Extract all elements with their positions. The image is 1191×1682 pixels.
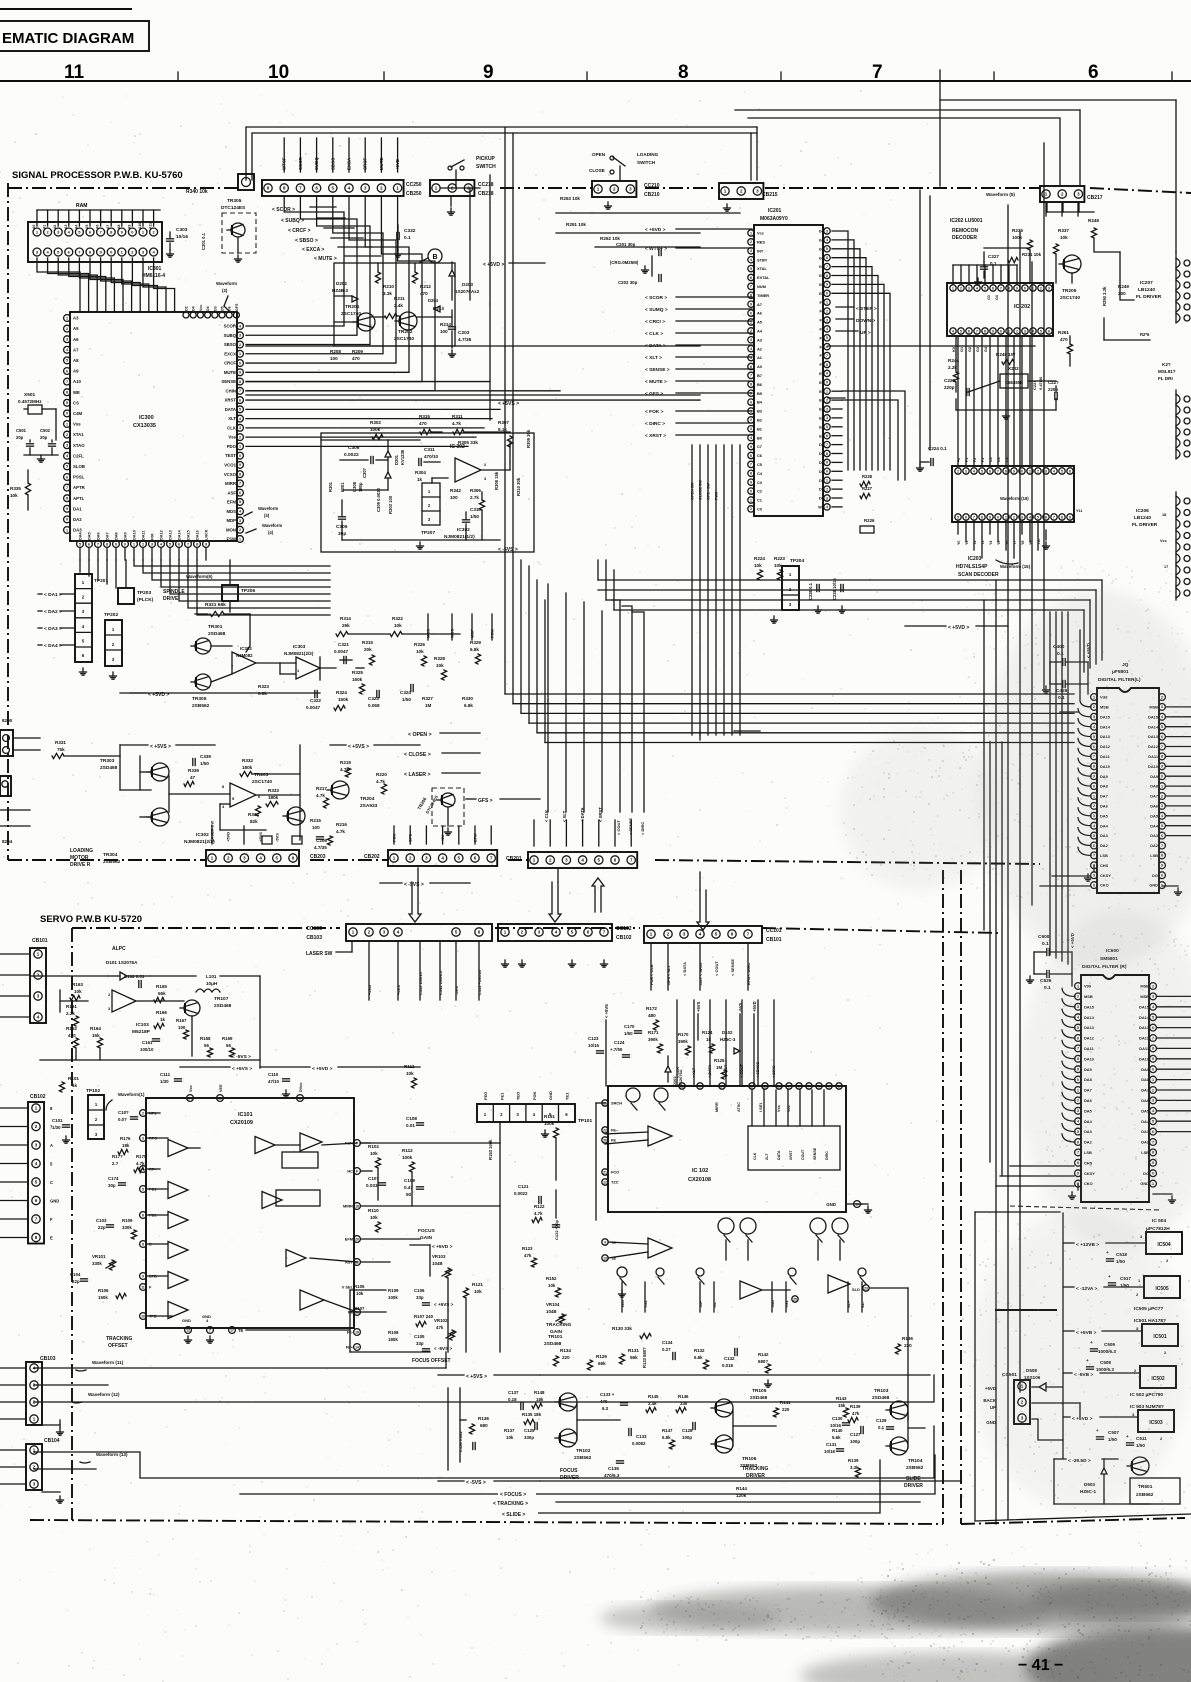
svg-text:R2*6: R2*6 — [1140, 332, 1150, 337]
wire scan decoder stubs — [958, 521, 1050, 558]
svg-text:DA10: DA10 — [133, 530, 137, 540]
svg-text:< +5VD >: < +5VD > — [948, 625, 969, 631]
svg-text:10k: 10k — [474, 1289, 482, 1294]
svg-text:Waveform: Waveform — [216, 281, 237, 286]
svg-text:< +5VS >: < +5VS > — [498, 401, 519, 407]
resistor R171 — [648, 1030, 663, 1053]
resistor R106 — [98, 1288, 126, 1300]
svg-text:1: 1 — [750, 409, 752, 413]
resistor R248 — [1088, 218, 1099, 238]
svg-text:< +5VS >: < +5VS > — [150, 744, 171, 750]
net +12VB arrow — [1063, 1242, 1146, 1248]
svg-text:R337: R337 — [1058, 228, 1069, 233]
svg-text:FL DRIVER: FL DRIVER — [1136, 294, 1162, 300]
IC102 inner labels — [753, 1147, 829, 1160]
op-amp drive A — [740, 1281, 762, 1299]
svg-text:Y0: Y0 — [957, 541, 961, 545]
net TG labels — [620, 1282, 865, 1312]
svg-text:100p: 100p — [682, 1435, 692, 1440]
svg-text:OPEN 5W: OPEN 5W — [691, 482, 695, 500]
test point TP207 — [421, 483, 440, 536]
svg-text:SBSO: SBSO — [330, 157, 335, 170]
svg-text:A10: A10 — [73, 379, 81, 384]
svg-text:ATSC: ATSC — [737, 1102, 741, 1112]
svg-text:TE: TE — [238, 1328, 244, 1333]
svg-text:DA1: DA1 — [73, 506, 82, 511]
svg-text:DA11: DA11 — [142, 531, 146, 541]
svg-text:18k: 18k — [122, 1143, 130, 1148]
svg-text:< COUT: < COUT — [740, 1063, 744, 1078]
svg-text:6: 6 — [1069, 469, 1071, 473]
IC203 scan decoder — [952, 457, 1083, 545]
svg-text:7: 7 — [976, 329, 978, 333]
svg-text:R308 15k: R308 15k — [494, 471, 499, 490]
svg-text:7: 7 — [187, 542, 189, 546]
svg-text:GND: GND — [826, 1202, 836, 1207]
test point TP102 — [86, 1088, 104, 1139]
svg-text:LOADING: LOADING — [637, 152, 659, 157]
laser sw label — [306, 941, 352, 957]
svg-text:C6: C6 — [757, 453, 763, 458]
wire cb103 nets — [34, 1352, 934, 1478]
net +5VD arrow right mid — [905, 625, 1008, 631]
svg-text:TEST: TEST — [225, 453, 236, 458]
svg-text:3: 3 — [151, 542, 153, 546]
wire remocon — [956, 248, 1072, 419]
resistor R228 — [860, 474, 873, 487]
svg-text:TR301: TR301 — [208, 624, 223, 630]
svg-text:C332: C332 — [404, 228, 416, 234]
svg-text:TR305: TR305 — [192, 696, 207, 702]
svg-text:50: 50 — [406, 1192, 412, 1197]
IC300 left pins — [64, 315, 86, 534]
svg-text:2SB562: 2SB562 — [192, 703, 210, 709]
svg-text:4: 4 — [142, 1167, 144, 1171]
focus driver label — [560, 1468, 579, 1481]
svg-text:3: 3 — [965, 469, 967, 473]
svg-text:< CLOSE >: < CLOSE > — [404, 752, 431, 758]
svg-text:C1: C1 — [757, 498, 763, 503]
svg-text:9: 9 — [826, 461, 828, 465]
svg-text:CB203: CB203 — [310, 854, 326, 860]
net +5VS -5VS small arrows — [434, 1302, 454, 1351]
svg-text:2: 2 — [750, 329, 752, 333]
svg-text:100k: 100k — [544, 1121, 555, 1126]
net -5VB arrow — [1063, 1372, 1140, 1378]
waveform 3 4 labels — [244, 506, 282, 535]
op-amp IC101 CX20109 servo amp — [146, 1098, 354, 1328]
resistor R102 — [368, 1144, 381, 1168]
resistor R308 — [494, 471, 499, 490]
svg-text:2: 2 — [960, 286, 962, 290]
svg-text:1k: 1k — [72, 1083, 78, 1088]
svg-text:3: 3 — [239, 426, 241, 430]
capacitor C309 — [376, 487, 381, 512]
svg-text:470/10: 470/10 — [424, 454, 438, 459]
svg-text:2: 2 — [750, 507, 752, 511]
svg-text:< DA1 >: < DA1 > — [44, 592, 62, 598]
transistor TR501 — [1127, 1457, 1180, 1504]
svg-text:TP102: TP102 — [86, 1088, 100, 1094]
test point TP101 — [477, 1091, 592, 1137]
wire filter L pin stubs — [1040, 630, 1191, 895]
svg-text:DRIVE R: DRIVE R — [70, 862, 91, 868]
svg-text:R331: R331 — [55, 740, 66, 745]
diode D101 — [106, 960, 150, 980]
svg-text:R135 18k: R135 18k — [522, 1412, 542, 1417]
svg-text:0: 0 — [826, 292, 828, 296]
svg-text:R137: R137 — [504, 1428, 515, 1433]
svg-text:OPE+ 5W: OPE+ 5W — [707, 483, 711, 500]
svg-text:3: 3 — [239, 334, 241, 338]
svg-text:A3: A3 — [64, 225, 68, 229]
svg-text:B4: B4 — [757, 400, 763, 405]
svg-text:C7: C7 — [757, 444, 762, 449]
svg-text:9: 9 — [483, 62, 494, 83]
svg-text:C323: C323 — [368, 696, 379, 701]
svg-text:TP201: TP201 — [94, 578, 108, 584]
svg-text:C125: C125 — [524, 1428, 535, 1433]
svg-text:1/30: 1/30 — [160, 1079, 169, 1084]
svg-text:R211: R211 — [394, 296, 405, 301]
svg-text:6: 6 — [992, 286, 994, 290]
svg-text:9: 9 — [115, 542, 117, 546]
transistor TR103 — [872, 1388, 908, 1419]
svg-text:R330: R330 — [462, 696, 473, 701]
resistor R339 — [184, 768, 199, 787]
svg-text:LASER SW: LASER SW — [306, 951, 333, 957]
svg-text:47k: 47k — [436, 1325, 444, 1330]
svg-text:0.27: 0.27 — [662, 1347, 671, 1352]
capacitor C311 — [419, 447, 439, 466]
filter L right pins — [1148, 694, 1165, 889]
svg-text:10k: 10k — [548, 1283, 556, 1288]
svg-text:R333: R333 — [268, 788, 279, 793]
svg-text:C5: C5 — [757, 462, 763, 467]
transistor TR104 — [886, 1437, 924, 1471]
svg-text:17: 17 — [230, 1328, 234, 1332]
svg-text:5: 5 — [169, 542, 171, 546]
svg-text:470: 470 — [419, 421, 427, 426]
svg-text:1/30: 1/30 — [52, 1125, 61, 1130]
svg-text:CX13035: CX13035 — [133, 423, 156, 429]
svg-text:1: 1 — [750, 320, 752, 324]
svg-text:R311: R311 — [452, 414, 463, 419]
RAM IC301 — [28, 203, 165, 279]
svg-text:R223: R223 — [774, 556, 785, 561]
capacitor C322 — [306, 691, 321, 711]
svg-text:F: F — [356, 1169, 358, 1173]
svg-text:< MUTE >: < MUTE > — [645, 379, 667, 385]
svg-text:14: 14 — [355, 1345, 359, 1349]
connector CB215 — [719, 183, 778, 211]
svg-text:< CLK: < CLK — [676, 1067, 680, 1078]
resistor R101 — [59, 1076, 79, 1092]
svg-text:9: 9 — [826, 283, 828, 287]
resistor R165 — [154, 984, 167, 1003]
svg-text:FOCUS: FOCUS — [418, 1228, 436, 1234]
wire ic102 bus up — [752, 1090, 862, 1204]
svg-text:8: 8 — [750, 383, 752, 387]
diode D202 — [332, 281, 358, 302]
svg-text:Waveform (11): Waveform (11) — [92, 1360, 124, 1365]
resistor R123 — [522, 1246, 537, 1267]
svg-text:3: 3 — [66, 338, 68, 342]
svg-text:< SUMQ >: < SUMQ > — [645, 307, 668, 313]
svg-text:10k: 10k — [370, 1215, 378, 1220]
svg-text:220p: 220p — [1048, 387, 1058, 392]
svg-text:D2: D2 — [185, 306, 189, 311]
test point TP204 — [771, 558, 805, 623]
svg-text:R212: R212 — [420, 284, 431, 289]
svg-text:330k: 330k — [122, 1225, 132, 1230]
wire — [60, 560, 230, 679]
svg-text:0.4572MHz: 0.4572MHz — [18, 399, 42, 404]
transistor TR304 — [103, 808, 169, 865]
svg-text:A7: A7 — [757, 302, 762, 307]
svg-text:M5218P: M5218P — [132, 1029, 151, 1035]
svg-text:R220: R220 — [376, 772, 387, 777]
svg-text:R339: R339 — [188, 768, 199, 773]
svg-text:10μH: 10μH — [206, 981, 218, 986]
svg-text:C124: C124 — [614, 1040, 625, 1045]
svg-text:R315: R315 — [362, 640, 373, 645]
resistor R326 — [414, 642, 427, 666]
svg-text:C137: C137 — [508, 1390, 519, 1395]
variable resistor VR102 — [434, 1318, 456, 1340]
wire filter R pin stubs — [996, 988, 1191, 1203]
connector CB203 — [206, 821, 326, 866]
svg-text:IC301: IC301 — [148, 266, 162, 272]
waveform 13 label — [80, 1452, 128, 1463]
svg-text:NJM0821(1/2): NJM0821(1/2) — [444, 534, 475, 540]
svg-text:M063A09Y0: M063A09Y0 — [760, 216, 788, 222]
svg-text:IC206: IC206 — [1136, 508, 1149, 514]
svg-text:TRACKING: TRACKING — [742, 1466, 768, 1472]
svg-text:SUBQ: SUBQ — [224, 333, 237, 338]
svg-text:< MUTE >: < MUTE > — [314, 256, 337, 262]
svg-text:7: 7 — [997, 469, 999, 473]
svg-text:< +5VD >: < +5VD > — [148, 692, 169, 698]
resistor R138 — [848, 1404, 861, 1423]
svg-text:2: 2 — [142, 542, 144, 546]
svg-text:100/10: 100/10 — [140, 1047, 154, 1052]
svg-text:9: 9 — [750, 303, 752, 307]
svg-text:Vss: Vss — [228, 435, 236, 440]
svg-text:9: 9 — [142, 1274, 144, 1278]
svg-text:C501: C501 — [16, 428, 27, 433]
svg-text:9: 9 — [66, 401, 68, 405]
svg-text:A4: A4 — [74, 225, 78, 229]
svg-text:R321 68k: R321 68k — [205, 602, 226, 608]
svg-text:PDO: PDO — [227, 444, 237, 449]
connector CB104 servo — [0, 1438, 64, 1503]
svg-text:C310: C310 — [470, 507, 481, 512]
resistor R163 — [70, 982, 83, 1001]
op-amp IC303a — [231, 646, 256, 674]
svg-text:5: 5 — [79, 542, 81, 546]
resistor R307 — [498, 420, 513, 447]
IC300 top pins — [183, 303, 239, 318]
svg-text:C133: C133 — [636, 1434, 647, 1439]
svg-text:R125: R125 — [714, 1058, 725, 1063]
svg-text:C130: C130 — [832, 1416, 843, 1421]
switch circles on IC102 — [626, 1088, 668, 1110]
net CLK..DIRC arrows under CC101 — [649, 959, 751, 976]
resistor R136b — [895, 1336, 913, 1354]
resistor R125 — [714, 1058, 727, 1079]
svg-text:FE: FE — [611, 1138, 616, 1143]
svg-text:33p: 33p — [416, 1295, 424, 1300]
svg-text:2SC1740: 2SC1740 — [252, 779, 272, 785]
svg-text:2.2k: 2.2k — [66, 1011, 75, 1016]
svg-text:< -5VS >: < -5VS > — [404, 882, 424, 888]
svg-text:+.7/50: +.7/50 — [610, 1047, 623, 1052]
svg-text:6: 6 — [88, 542, 90, 546]
svg-text:< EXCA >: < EXCA > — [302, 247, 324, 253]
svg-text:A6: A6 — [96, 225, 100, 229]
svg-text:3: 3 — [1048, 286, 1050, 290]
capacitor C130 — [830, 1416, 850, 1428]
spindle drive label — [163, 589, 185, 602]
svg-text:EFM: EFM — [345, 1237, 353, 1242]
transistor TR303 — [100, 758, 169, 781]
svg-text:< SBSO >: < SBSO > — [295, 238, 318, 244]
transistor TR305b — [191, 674, 211, 709]
filter R right pins — [1139, 983, 1156, 1187]
power section border — [975, 1212, 1191, 1521]
svg-text:4.7k: 4.7k — [376, 779, 385, 784]
resistor R129 — [587, 1354, 607, 1370]
resistor R134 — [553, 1348, 571, 1366]
svg-text:R251 10k: R251 10k — [566, 222, 586, 227]
svg-text:0.018: 0.018 — [722, 1363, 734, 1368]
resistor R306 — [470, 488, 485, 510]
svg-text:G6: G6 — [819, 282, 825, 287]
svg-text:8: 8 — [66, 391, 68, 395]
resistor R146 — [676, 1394, 689, 1413]
svg-text:GAIN: GAIN — [550, 1329, 563, 1335]
svg-text:R169: R169 — [222, 1036, 233, 1041]
svg-text:FL DRI: FL DRI — [1158, 376, 1173, 381]
wire laser line — [700, 731, 760, 740]
svg-text:4: 4 — [750, 347, 752, 351]
digital filter JQ uPD5801 — [1097, 662, 1159, 893]
svg-text:Vcc: Vcc — [1160, 539, 1167, 543]
svg-text:8: 8 — [1061, 515, 1063, 519]
svg-text:5: 5 — [142, 1187, 144, 1191]
svg-text:G3: G3 — [976, 347, 980, 352]
svg-text:C106: C106 — [414, 1288, 425, 1293]
svg-text:R326: R326 — [414, 642, 425, 647]
svg-text:DIRC: DIRC — [825, 1151, 829, 1160]
op-amp IC303b — [284, 644, 320, 679]
svg-text:2: 2 — [66, 327, 68, 331]
svg-text:TP101: TP101 — [578, 1118, 592, 1124]
svg-text:3: 3 — [1045, 469, 1047, 473]
resistor R226 — [860, 518, 875, 533]
svg-text:2: 2 — [957, 469, 959, 473]
svg-text:8: 8 — [66, 497, 68, 501]
resistor R167 — [176, 1018, 189, 1039]
svg-text:9: 9 — [1013, 469, 1015, 473]
svg-text:TE1: TE1 — [565, 1092, 570, 1100]
svg-text:R176: R176 — [120, 1136, 131, 1141]
capacitor C220 — [944, 378, 969, 396]
svg-text:R162: R162 — [66, 1026, 77, 1031]
svg-text:C321: C321 — [338, 642, 349, 647]
svg-text:DA15: DA15 — [187, 530, 191, 540]
resistor R250 — [1102, 286, 1107, 306]
IC202 remocon box — [947, 283, 1053, 352]
svg-text:9.1k: 9.1k — [498, 427, 507, 432]
svg-text:FSW: FSW — [490, 629, 495, 638]
svg-text:10: 10 — [268, 62, 289, 83]
svg-text:D202: D202 — [336, 281, 347, 286]
svg-text:3: 3 — [750, 338, 752, 342]
svg-text:5: 5 — [239, 500, 241, 504]
svg-text:G2: G2 — [819, 246, 825, 251]
svg-text:Y11: Y11 — [1076, 509, 1083, 513]
svg-text:< -5VS >: < -5VS > — [466, 1480, 486, 1486]
tracking gain label — [546, 1322, 572, 1335]
resistor R110 — [368, 1208, 381, 1232]
capacitor C224 — [917, 446, 948, 471]
svg-text:MDP: MDP — [226, 518, 236, 523]
top edge mark — [0, 8, 131, 10]
op-amp FE amp — [605, 1126, 672, 1146]
svg-text:< FOK >: < FOK > — [645, 409, 664, 415]
resistor R342 — [450, 488, 461, 500]
svg-text:A2: A2 — [757, 346, 763, 351]
capacitor C227 — [975, 254, 1000, 285]
svg-text:8: 8 — [826, 452, 828, 456]
wire CLK bundle risers — [548, 584, 645, 835]
svg-text:G3: G3 — [987, 295, 991, 300]
svg-text:D4: D4 — [819, 460, 825, 465]
svg-text:1: 1 — [66, 528, 68, 532]
svg-text:NUM: NUM — [757, 284, 766, 289]
svg-text:CS: CS — [73, 400, 79, 405]
svg-text:A9: A9 — [127, 225, 131, 229]
svg-text:R168: R168 — [200, 1036, 211, 1041]
svg-text:22p: 22p — [98, 1225, 106, 1230]
svg-text:< SENSE: < SENSE — [628, 818, 633, 835]
svg-text:R305 33k: R305 33k — [458, 440, 478, 445]
resistor cluster bottom center — [354, 1284, 434, 1351]
svg-text:4.7k: 4.7k — [452, 421, 461, 426]
resistor R217 — [316, 786, 329, 808]
svg-text:C202 30p: C202 30p — [618, 280, 638, 285]
svg-text:B5: B5 — [757, 391, 763, 396]
svg-text:< XLT: < XLT — [666, 965, 671, 976]
wire driver outputs — [240, 1455, 935, 1513]
diode D301 — [385, 440, 405, 490]
svg-text:D1: D1 — [819, 487, 825, 492]
svg-text:CC250: CC250 — [406, 182, 422, 188]
svg-text:DA5: DA5 — [88, 532, 92, 540]
svg-text:C0: C0 — [757, 507, 762, 512]
svg-text:0.1: 0.1 — [404, 235, 411, 241]
resistor R172 — [646, 1006, 659, 1030]
svg-text:CB250: CB250 — [406, 191, 422, 197]
svg-text:GAIN: GAIN — [420, 1235, 433, 1241]
svg-text:7: 7 — [750, 285, 752, 289]
svg-text:2SC1740: 2SC1740 — [341, 311, 361, 317]
svg-text:CB102: CB102 — [30, 1094, 46, 1100]
svg-text:STBY: STBY — [757, 257, 768, 262]
svg-text:12: 12 — [186, 1328, 190, 1332]
